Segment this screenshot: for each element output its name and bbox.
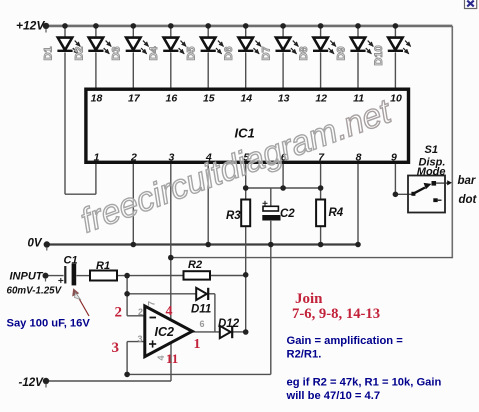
svg-text:IC1: IC1 xyxy=(235,126,255,141)
svg-text:18: 18 xyxy=(91,92,103,104)
svg-text:D12: D12 xyxy=(218,318,240,330)
svg-text:3: 3 xyxy=(112,340,120,356)
svg-text:Say 100 uF, 16V: Say 100 uF, 16V xyxy=(7,317,91,329)
svg-text:Gain = amplification =: Gain = amplification = xyxy=(287,335,404,347)
svg-text:R4: R4 xyxy=(329,207,344,219)
svg-text:D9: D9 xyxy=(335,46,347,60)
svg-text:dot: dot xyxy=(459,194,478,206)
svg-text:60mV-1.25V: 60mV-1.25V xyxy=(7,286,63,297)
svg-text:D8: D8 xyxy=(298,46,310,60)
svg-text:4: 4 xyxy=(166,304,173,319)
svg-text:0V: 0V xyxy=(28,238,43,250)
svg-text:2: 2 xyxy=(115,305,123,321)
svg-text:7-6, 9-8, 14-13: 7-6, 9-8, 14-13 xyxy=(292,306,380,322)
svg-text:R1: R1 xyxy=(96,260,110,272)
svg-text:D5: D5 xyxy=(186,46,198,60)
svg-text:3: 3 xyxy=(138,334,143,344)
svg-text:C1: C1 xyxy=(64,255,78,267)
svg-text:D1: D1 xyxy=(42,46,54,60)
svg-text:12: 12 xyxy=(315,92,327,104)
svg-text:+12V: +12V xyxy=(16,19,45,33)
svg-text:Mode: Mode xyxy=(417,166,446,178)
svg-text:13: 13 xyxy=(278,92,290,104)
svg-text:INPUT: INPUT xyxy=(10,271,44,283)
svg-text:2: 2 xyxy=(138,307,143,317)
svg-text:3: 3 xyxy=(168,151,174,163)
svg-text:D3: D3 xyxy=(111,46,123,60)
svg-text:4: 4 xyxy=(156,355,166,360)
svg-text:IC2: IC2 xyxy=(155,325,175,339)
svg-text:17: 17 xyxy=(128,92,141,104)
svg-text:14: 14 xyxy=(240,92,252,104)
svg-text:-12V: -12V xyxy=(19,377,45,389)
svg-text:9: 9 xyxy=(391,151,397,163)
svg-text:10: 10 xyxy=(390,92,402,104)
svg-text:D6: D6 xyxy=(223,46,235,60)
svg-text:11: 11 xyxy=(166,351,178,366)
svg-text:Join: Join xyxy=(295,291,323,307)
svg-text:7: 7 xyxy=(147,301,157,306)
svg-text:D10: D10 xyxy=(373,45,385,65)
svg-text:1: 1 xyxy=(194,337,201,352)
svg-text:D7: D7 xyxy=(261,46,273,60)
svg-text:eg if R2 = 47k, R1 = 10k, Gain: eg if R2 = 47k, R1 = 10k, Gain xyxy=(287,376,442,388)
svg-text:R2/R1.: R2/R1. xyxy=(287,348,322,360)
svg-text:D4: D4 xyxy=(148,46,160,61)
svg-text:15: 15 xyxy=(203,92,215,104)
svg-text:C2: C2 xyxy=(280,208,295,220)
svg-text:D11: D11 xyxy=(191,304,211,316)
svg-text:16: 16 xyxy=(166,92,178,104)
svg-text:S1: S1 xyxy=(425,144,438,156)
svg-text:8: 8 xyxy=(356,151,362,163)
svg-text:D2: D2 xyxy=(73,46,85,60)
svg-text:R2: R2 xyxy=(188,259,202,271)
svg-text:2: 2 xyxy=(130,151,137,163)
svg-text:will be 47/10 = 4.7: will be 47/10 = 4.7 xyxy=(286,390,381,402)
svg-text:6: 6 xyxy=(200,319,205,329)
svg-text:1: 1 xyxy=(94,151,100,163)
svg-text:bar: bar xyxy=(458,175,476,187)
svg-text:R3: R3 xyxy=(226,210,241,222)
